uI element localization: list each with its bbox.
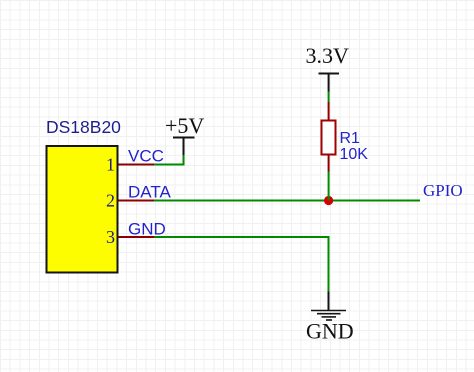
svg-text:GPIO: GPIO bbox=[423, 181, 463, 200]
svg-text:R1: R1 bbox=[340, 130, 361, 147]
svg-text:1: 1 bbox=[106, 154, 115, 174]
svg-text:DATA: DATA bbox=[128, 183, 171, 202]
svg-text:GND: GND bbox=[128, 220, 166, 239]
svg-text:2: 2 bbox=[106, 190, 115, 210]
svg-text:3.3V: 3.3V bbox=[306, 43, 350, 68]
svg-text:3: 3 bbox=[106, 227, 115, 247]
svg-text:10K: 10K bbox=[340, 146, 369, 163]
svg-text:GND: GND bbox=[306, 319, 354, 344]
svg-text:VCC: VCC bbox=[128, 147, 164, 166]
svg-text:DS18B20: DS18B20 bbox=[46, 117, 121, 137]
svg-text:+5V: +5V bbox=[165, 113, 204, 138]
